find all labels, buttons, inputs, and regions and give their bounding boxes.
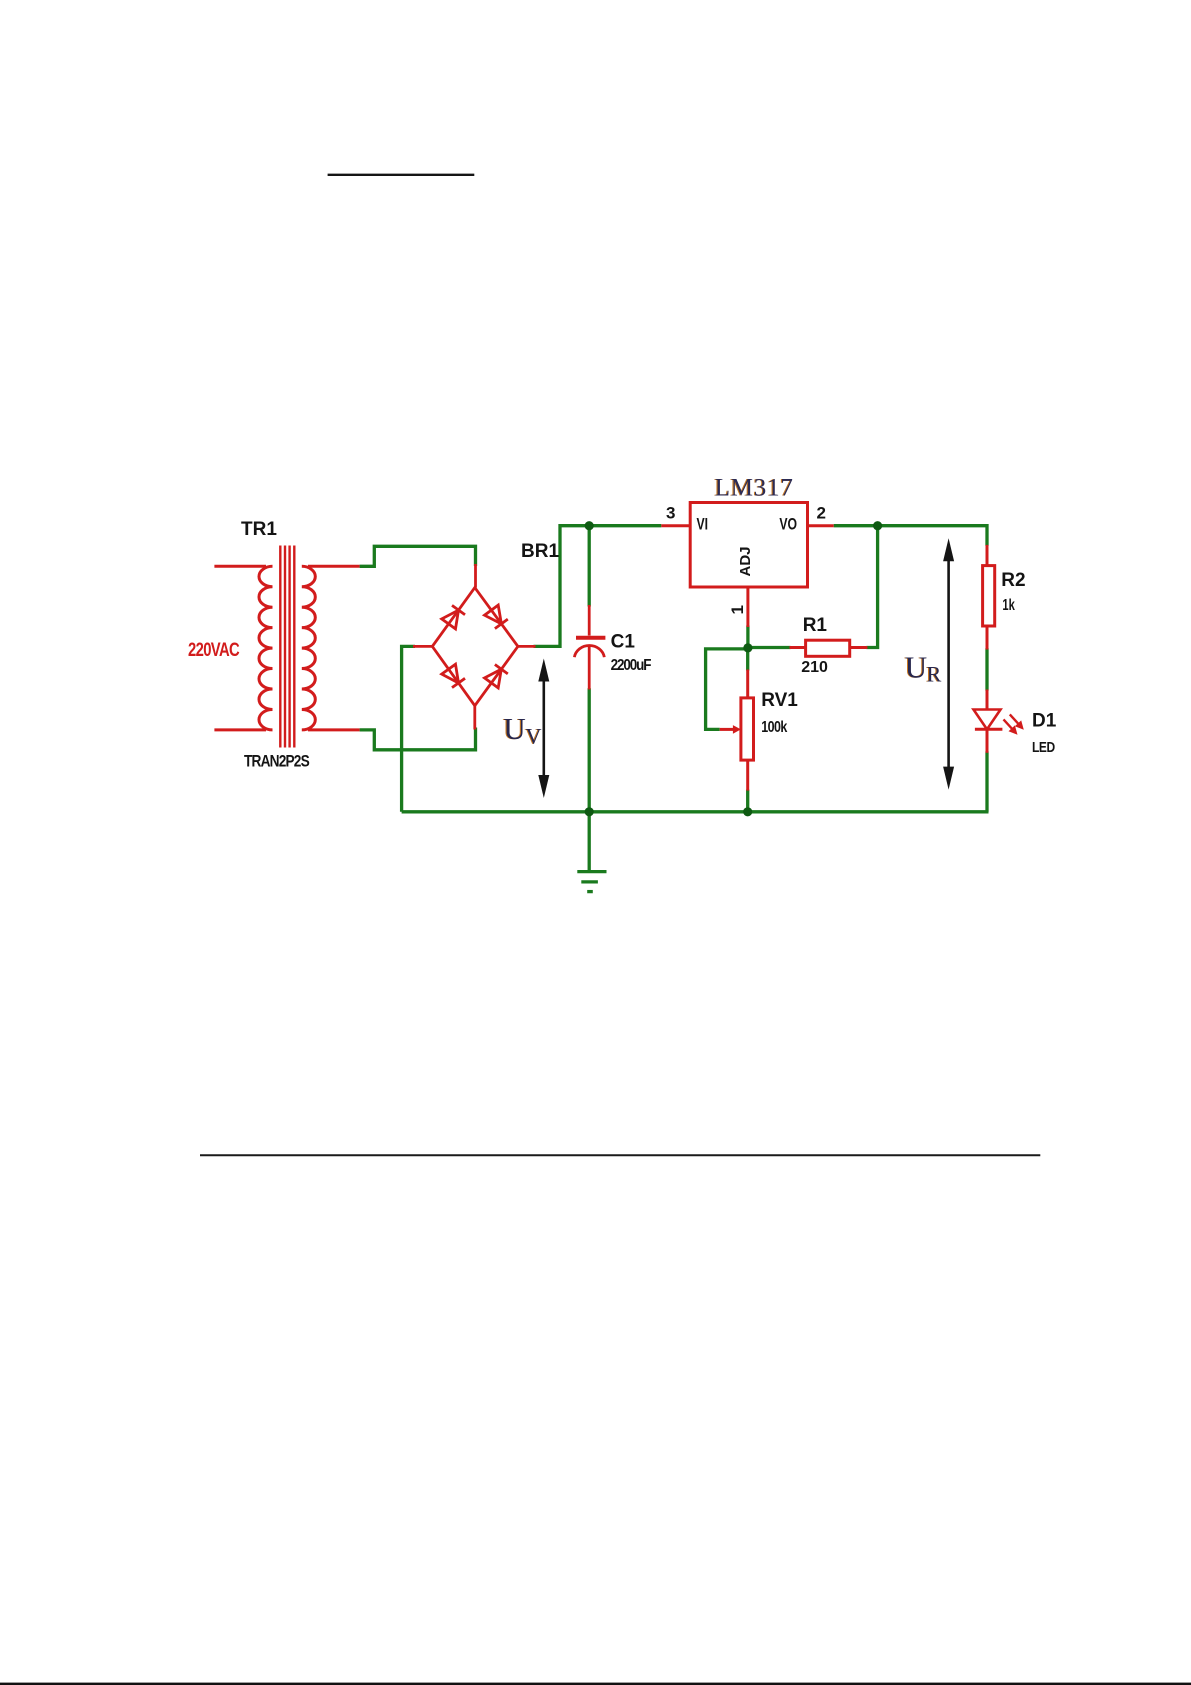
pin VI lead bbox=[661, 524, 690, 527]
heading underline bbox=[328, 174, 475, 176]
svg-text:BR1: BR1 bbox=[521, 541, 559, 562]
node junction VI/C1 top bbox=[585, 521, 594, 530]
bridge diamond bbox=[432, 588, 518, 706]
wire: C1 lower green segment bbox=[588, 688, 591, 812]
diode D-LB bbox=[442, 664, 459, 683]
primary bottom lead bbox=[214, 728, 266, 731]
node junction ADJ/R1/RV1 bbox=[743, 643, 752, 652]
label UV bbox=[502, 711, 541, 749]
wire: LED to bottom rail bbox=[985, 751, 988, 812]
svg-text:220VAC: 220VAC bbox=[188, 639, 239, 660]
bridge bottom lead bbox=[473, 706, 476, 730]
svg-text:3: 3 bbox=[666, 504, 675, 523]
potentiometer RV1 bbox=[746, 670, 749, 699]
UV measurement arrow bbox=[538, 659, 549, 799]
bridge right lead bbox=[518, 645, 536, 648]
svg-text:LM317: LM317 bbox=[715, 475, 794, 502]
svg-text:1k: 1k bbox=[1002, 595, 1015, 614]
wire: RV1 wiper loop bbox=[706, 649, 746, 730]
resistor R1 bbox=[790, 646, 806, 649]
diode D-TR bbox=[485, 605, 502, 624]
transformer TR1 bbox=[214, 546, 359, 748]
capacitor C1 bbox=[574, 605, 605, 690]
wire: RV1 bottom green bbox=[746, 790, 749, 812]
UR measurement arrow bbox=[943, 538, 954, 789]
bridge rectifier BR1 bbox=[413, 564, 536, 730]
svg-text:V: V bbox=[526, 724, 542, 749]
svg-text:1: 1 bbox=[728, 605, 747, 614]
svg-text:2200uF: 2200uF bbox=[611, 657, 652, 674]
primary winding bbox=[259, 566, 273, 730]
wire: R2 to LED green segment bbox=[985, 648, 988, 691]
svg-text:LED: LED bbox=[1032, 739, 1055, 756]
wire: LM317 VO to R2 top corner bbox=[834, 526, 987, 546]
secondary bottom lead bbox=[308, 728, 360, 731]
pin VO lead bbox=[808, 524, 834, 527]
resistor R2 bbox=[986, 545, 989, 566]
primary top lead bbox=[214, 565, 266, 568]
svg-text:U: U bbox=[905, 649, 927, 684]
svg-text:C1: C1 bbox=[611, 632, 636, 653]
wire: transformer secondary bottom step to bridge bottom bbox=[360, 728, 476, 750]
bridge left lead bbox=[413, 645, 432, 648]
svg-text:2: 2 bbox=[817, 504, 826, 523]
wire: bridge left vertex down to bottom rail bbox=[402, 646, 415, 811]
svg-text:R: R bbox=[927, 661, 942, 686]
label UR bbox=[904, 649, 942, 686]
svg-text:RV1: RV1 bbox=[761, 690, 798, 711]
svg-text:TRAN2P2S: TRAN2P2S bbox=[244, 752, 310, 770]
footer border line bbox=[0, 1683, 1191, 1685]
wire: transformer secondary top step to bridge top bbox=[360, 546, 476, 566]
svg-text:VO: VO bbox=[779, 516, 797, 534]
bridge top lead bbox=[474, 564, 477, 588]
secondary winding bbox=[302, 566, 316, 730]
wiper arrow bbox=[720, 728, 735, 731]
svg-text:U: U bbox=[503, 711, 525, 746]
wire: bridge right vertex up to top rail and to LM317 VI bbox=[534, 526, 662, 647]
wire: C1 upper green segment bbox=[588, 526, 591, 607]
svg-text:TR1: TR1 bbox=[241, 519, 277, 540]
svg-text:210: 210 bbox=[801, 659, 828, 676]
node junction VO rail bbox=[873, 521, 882, 530]
pin ADJ lead bbox=[746, 587, 749, 627]
svg-text:VI: VI bbox=[697, 516, 709, 534]
ground bbox=[577, 812, 606, 892]
LED D1 bbox=[986, 690, 989, 711]
label LM317 bbox=[714, 475, 794, 502]
secondary top lead bbox=[308, 565, 360, 568]
section divider line bbox=[200, 1154, 1040, 1156]
wire: ADJ node green bbox=[746, 626, 749, 649]
node junction rail / RV1 bbox=[743, 807, 752, 816]
svg-text:R2: R2 bbox=[1001, 570, 1025, 591]
svg-text:100k: 100k bbox=[761, 719, 787, 737]
svg-text:ADJ: ADJ bbox=[737, 546, 754, 576]
diode D-TL bbox=[442, 610, 459, 629]
wire: R1 right to VO node vertical bbox=[866, 526, 877, 648]
node junction ground rail / C1 bbox=[585, 807, 594, 816]
core lines bbox=[279, 546, 281, 748]
wire: RV1 top green bbox=[746, 648, 749, 671]
LED arrows bbox=[1004, 714, 1024, 734]
svg-text:R1: R1 bbox=[803, 615, 828, 636]
wire: ADJ node to R1 bbox=[748, 646, 791, 649]
svg-text:D1: D1 bbox=[1032, 711, 1057, 732]
wire: bottom rail bbox=[402, 810, 989, 813]
diode D-BR bbox=[485, 669, 502, 688]
op-amp style regulator U1 LM317 box bbox=[690, 503, 807, 588]
